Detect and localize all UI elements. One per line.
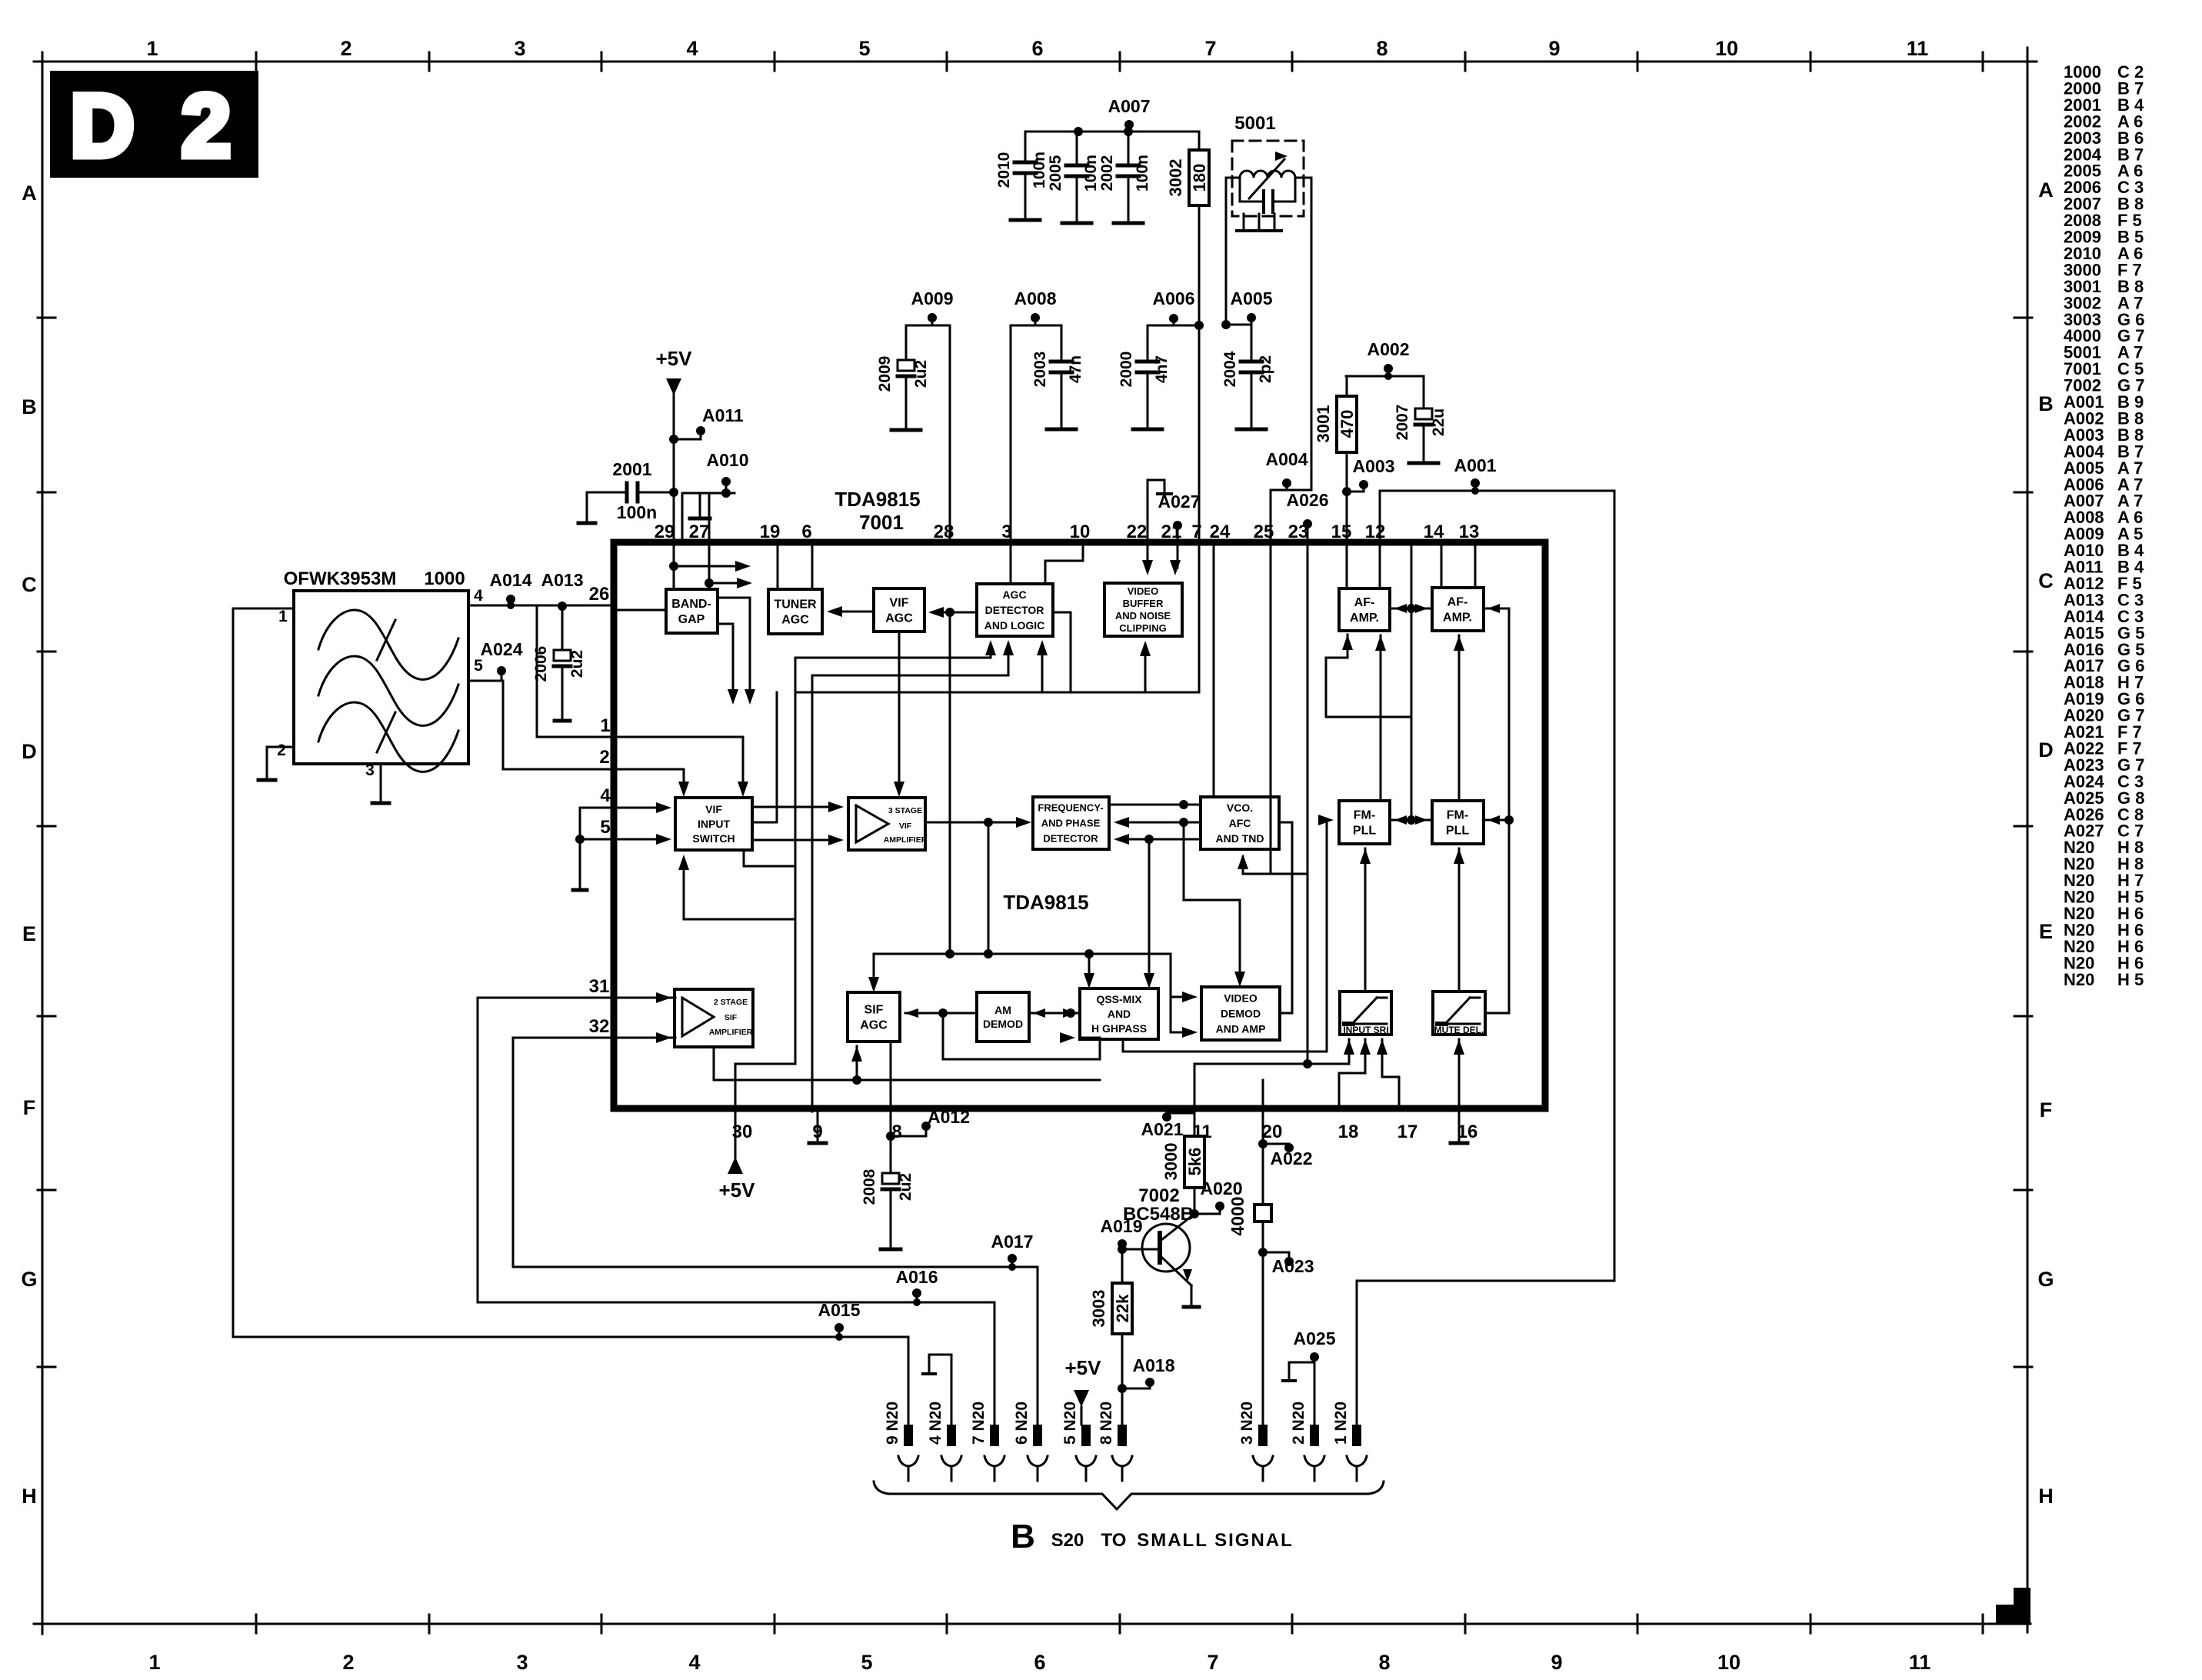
bottom ruler column numbers 1-11 bbox=[148, 1651, 1930, 1674]
wire pin 1 into vif switch bbox=[614, 737, 748, 797]
svg-text:32: 32 bbox=[589, 1016, 610, 1037]
tunable bandpass filter 5001 bbox=[1232, 113, 1304, 216]
svg-text:4: 4 bbox=[686, 37, 698, 60]
filter 5001 case ground stubs bbox=[1237, 214, 1281, 231]
wire am demod to qss mix bbox=[1029, 1008, 1080, 1018]
svg-text:DETECTOR: DETECTOR bbox=[985, 604, 1044, 616]
svg-text:AGC: AGC bbox=[885, 612, 913, 625]
block VCO AFC AND TND bbox=[1201, 797, 1279, 849]
wire af link vertical bbox=[1411, 542, 1413, 820]
component grid-reference list bbox=[2064, 62, 2144, 989]
IC left pin numbers bbox=[589, 584, 611, 1037]
wire pin 28 drop bbox=[949, 325, 951, 542]
connector pin 9 N20 bbox=[884, 1402, 918, 1481]
svg-text:QSS-MIX: QSS-MIX bbox=[1096, 993, 1142, 1005]
wire bus to video demod inputs bbox=[1171, 954, 1198, 1038]
svg-text:2002: 2002 bbox=[1098, 155, 1116, 192]
svg-text:6: 6 bbox=[801, 522, 811, 542]
svg-text:N20: N20 bbox=[2064, 970, 2094, 989]
wire pin 5 into vif switch bbox=[614, 834, 671, 845]
capacitor 2006 2u2 bbox=[532, 608, 586, 721]
svg-text:B: B bbox=[22, 395, 37, 418]
test point A001 bbox=[1454, 455, 1497, 491]
svg-text:AMPLIFIER: AMPLIFIER bbox=[709, 1028, 753, 1037]
svg-text:AGC: AGC bbox=[781, 614, 809, 627]
svg-text:A009: A009 bbox=[911, 288, 954, 308]
svg-text:31: 31 bbox=[589, 976, 610, 997]
svg-text:G: G bbox=[2037, 1268, 2054, 1291]
svg-text:3002: 3002 bbox=[1166, 159, 1185, 197]
svg-text:24: 24 bbox=[1210, 522, 1231, 542]
block FREQUENCY AND PHASE DETECTOR bbox=[1033, 797, 1109, 849]
svg-text:22u: 22u bbox=[1430, 408, 1447, 436]
svg-text:7 N20: 7 N20 bbox=[970, 1402, 988, 1445]
test point A017 bbox=[991, 1232, 1034, 1271]
wire vif switch out middle bbox=[752, 692, 777, 822]
svg-text:19: 19 bbox=[760, 522, 781, 542]
test point A027 bbox=[1158, 492, 1201, 542]
wire A019 to 3003 bbox=[1121, 1249, 1124, 1283]
svg-text:A012: A012 bbox=[928, 1107, 970, 1127]
wire pin 26 into band-gap bbox=[614, 609, 666, 612]
border frame top ruler line bbox=[34, 61, 2037, 63]
test point A009 bbox=[911, 288, 954, 325]
wire pin28 node to vif agc and agc det bbox=[928, 607, 977, 618]
ground transistor emitter bbox=[1184, 1305, 1199, 1309]
svg-text:5: 5 bbox=[600, 817, 610, 838]
wire A024 to IC pin 2 bbox=[503, 681, 614, 769]
svg-text:C: C bbox=[22, 573, 37, 596]
svg-text:100n: 100n bbox=[1031, 152, 1048, 188]
svg-text:A021: A021 bbox=[1141, 1119, 1184, 1139]
wire A008 node bbox=[1011, 325, 1061, 327]
wire fm-pll top to af-amp bbox=[1375, 635, 1386, 801]
svg-text:2u2: 2u2 bbox=[568, 650, 586, 678]
svg-text:27: 27 bbox=[689, 522, 710, 542]
label OFWK pin 4 bbox=[474, 587, 483, 605]
svg-text:INPUT SRI: INPUT SRI bbox=[1343, 1025, 1388, 1035]
svg-text:100n: 100n bbox=[1082, 155, 1100, 192]
wire bus into qss mix bbox=[1084, 954, 1094, 988]
wire agc det right output bbox=[1053, 612, 1071, 692]
wire A015 to connector 9 N20 bbox=[908, 1337, 910, 1425]
wire pin 25 to vco bottom bbox=[1238, 542, 1308, 874]
svg-text:VIF: VIF bbox=[890, 597, 909, 610]
wire band-gap output upper bbox=[718, 598, 755, 705]
resistor 3001 470 bbox=[1314, 376, 1357, 492]
IC top pin numbers bbox=[655, 522, 1480, 542]
svg-text:F: F bbox=[2040, 1098, 2053, 1122]
svg-text:OFWK3953M: OFWK3953M bbox=[284, 568, 397, 589]
power +5V symbol A011 rail bbox=[656, 347, 693, 395]
wire vif out to sif row bus bbox=[988, 822, 990, 954]
block VIDEO DEMOD AND AMP bbox=[1201, 987, 1280, 1040]
svg-text:1: 1 bbox=[146, 37, 158, 60]
svg-text:A004: A004 bbox=[1266, 449, 1308, 469]
connector pin 7 N20 bbox=[970, 1402, 1004, 1481]
svg-text:2 N20: 2 N20 bbox=[1290, 1402, 1308, 1445]
wire sif row bus bbox=[874, 949, 1171, 958]
svg-text:2010: 2010 bbox=[995, 152, 1013, 188]
svg-text:7002: 7002 bbox=[1138, 1185, 1179, 1206]
svg-text:8: 8 bbox=[1378, 1651, 1390, 1674]
svg-text:A005: A005 bbox=[1231, 288, 1273, 308]
test point A026 bbox=[1287, 490, 1329, 542]
resistor 3003 22k bbox=[1089, 1283, 1132, 1334]
svg-text:PLL: PLL bbox=[1353, 825, 1376, 838]
wire af2 right feed bbox=[1485, 604, 1509, 1013]
svg-text:3 N20: 3 N20 bbox=[1238, 1402, 1256, 1445]
wire A017 run bbox=[513, 1038, 1038, 1267]
sheet label D2 black box bbox=[50, 71, 258, 178]
wire vif amplifier output row bbox=[925, 817, 1031, 828]
test point A019 bbox=[1101, 1216, 1143, 1254]
svg-text:2007: 2007 bbox=[1394, 405, 1411, 441]
test point A011 bbox=[669, 405, 744, 444]
test point A018 bbox=[1122, 1355, 1175, 1388]
capacitor 2004 2p2 bbox=[1221, 325, 1274, 429]
wire 3002 to pin 7 bbox=[1194, 321, 1204, 542]
right border tick marks bbox=[2014, 318, 2032, 1367]
svg-text:A011: A011 bbox=[702, 405, 744, 425]
block VIF INPUT SWITCH bbox=[675, 798, 752, 850]
svg-text:3000: 3000 bbox=[1161, 1143, 1181, 1181]
svg-text:TDA9815: TDA9815 bbox=[1003, 891, 1088, 914]
capacitor 2009 2u2 bbox=[876, 325, 930, 430]
svg-text:AND TND: AND TND bbox=[1216, 832, 1264, 845]
block FM-PLL left bbox=[1339, 801, 1390, 844]
block VIDEO BUFFER AND NOISE CLIPPING bbox=[1104, 583, 1182, 636]
test point A024 bbox=[481, 639, 523, 681]
connector pin 8 N20 bbox=[1098, 1402, 1132, 1481]
svg-text:6 N20: 6 N20 bbox=[1013, 1402, 1031, 1445]
test point A003 bbox=[1342, 456, 1394, 496]
label TDA9815 center bbox=[1003, 891, 1088, 914]
svg-text:H: H bbox=[22, 1485, 37, 1508]
test point A021 bbox=[1141, 1112, 1194, 1139]
wire freq det row3 to qss mix bbox=[1144, 839, 1154, 988]
svg-text:10: 10 bbox=[1070, 522, 1091, 542]
wire af-amp link bbox=[1390, 604, 1432, 613]
block AM DEMOD bbox=[977, 992, 1029, 1042]
wire bus to af-amp bbox=[1326, 635, 1411, 717]
svg-text:6: 6 bbox=[1031, 37, 1043, 60]
wire video buffer bottom input bbox=[1140, 641, 1151, 692]
capacitor 2002 100n bbox=[1098, 132, 1151, 223]
svg-text:PLL: PLL bbox=[1446, 825, 1469, 838]
block 2 STAGE SIF AMPLIFIER bbox=[675, 989, 753, 1047]
wire pin 11 inside bbox=[1194, 1059, 1349, 1108]
svg-text:AMPLIFIER: AMPLIFIER bbox=[884, 835, 928, 845]
block AF-AMP right bbox=[1432, 588, 1484, 631]
wire top supply bus bbox=[1025, 127, 1199, 136]
wire pin 8 to 2008 bbox=[890, 1112, 892, 1173]
test point A013 bbox=[541, 570, 584, 611]
svg-text:12: 12 bbox=[1365, 522, 1386, 542]
resistor 3000 5k6 bbox=[1161, 1136, 1204, 1188]
test point A010 bbox=[707, 450, 749, 498]
ground OFWK pin 3 bbox=[372, 764, 389, 803]
capacitor 2003 47n bbox=[1031, 325, 1084, 429]
svg-text:100n: 100n bbox=[1134, 155, 1151, 192]
svg-text:470: 470 bbox=[1338, 410, 1357, 438]
wire agc det bottom input 2 bbox=[812, 640, 1014, 1112]
capacitor 2001 100n bbox=[587, 459, 678, 522]
svg-text:9 N20: 9 N20 bbox=[884, 1402, 901, 1445]
test point A012 bbox=[886, 1107, 970, 1141]
svg-text:A025: A025 bbox=[1294, 1328, 1336, 1348]
top ruler tick marks bbox=[256, 52, 1983, 71]
svg-text:2001: 2001 bbox=[612, 459, 651, 479]
wire pin 31 row bbox=[478, 992, 675, 1003]
svg-text:1: 1 bbox=[148, 1651, 160, 1674]
wire A017 to connector 6 N20 bbox=[1037, 1267, 1039, 1425]
svg-text:4: 4 bbox=[474, 587, 483, 605]
wire pin29 junction arrows bbox=[669, 542, 751, 589]
wire A001 node pin 12 row bbox=[1380, 487, 1614, 542]
svg-text:C: C bbox=[2038, 569, 2054, 592]
wire 4000 to connector 3 N20 bbox=[1258, 1222, 1268, 1425]
wire pin 3 into agc detector bbox=[1010, 542, 1012, 584]
svg-text:A017: A017 bbox=[991, 1232, 1034, 1252]
wire vco right to video demod right bbox=[1279, 822, 1292, 1013]
svg-text:5001: 5001 bbox=[1234, 113, 1275, 134]
block VIF AGC bbox=[874, 588, 924, 632]
ground at pin 9 bbox=[809, 1112, 826, 1143]
wire pin 28 inside drop bbox=[949, 612, 951, 954]
svg-text:16: 16 bbox=[1457, 1122, 1478, 1142]
wire pin 6 into tuner agc bbox=[811, 542, 814, 589]
wire 5001 right leg bbox=[1295, 178, 1311, 490]
capacitor 2010 100n bbox=[995, 132, 1048, 220]
svg-text:AF-: AF- bbox=[1354, 596, 1375, 609]
connector pin 4 N20 bbox=[927, 1402, 961, 1481]
svg-text:DEMOD: DEMOD bbox=[1221, 1007, 1261, 1019]
wire pin 24 into vco bbox=[1213, 542, 1215, 797]
svg-text:AFC: AFC bbox=[1229, 817, 1251, 829]
svg-text:A019: A019 bbox=[1101, 1216, 1143, 1236]
wire 5001 left leg bbox=[1226, 178, 1240, 325]
svg-text:4n7: 4n7 bbox=[1153, 355, 1171, 383]
bottom ruler tick marks bbox=[256, 1615, 1983, 1633]
svg-text:4: 4 bbox=[600, 785, 611, 806]
svg-text:3001: 3001 bbox=[1314, 405, 1333, 443]
svg-text:A: A bbox=[2038, 178, 2054, 202]
svg-text:E: E bbox=[2039, 920, 2053, 943]
wire pin 11 to 3000 bbox=[1194, 1108, 1196, 1136]
wire vif switch feedback loop bbox=[678, 658, 795, 1064]
svg-text:VIDEO: VIDEO bbox=[1224, 992, 1258, 1004]
ground for capacitor 2001 bbox=[578, 492, 595, 523]
svg-text:VCO.: VCO. bbox=[1227, 802, 1253, 814]
wire far-left vertical to A015 row bbox=[232, 608, 235, 1337]
wire pin 32 row bbox=[513, 1032, 675, 1043]
wire A016 to connector 7 N20 bbox=[994, 1302, 996, 1425]
svg-text:2006: 2006 bbox=[532, 646, 550, 682]
svg-text:AND LOGIC: AND LOGIC bbox=[984, 619, 1045, 632]
wire fm2 right feed bbox=[1484, 815, 1514, 825]
svg-text:D: D bbox=[2038, 738, 2054, 762]
svg-text:FM-: FM- bbox=[1354, 809, 1375, 822]
wire agc det bottom input 3 bbox=[1037, 640, 1048, 692]
wire pin 14 into af-amp2 bbox=[1441, 542, 1443, 588]
wire pin 15 drop bbox=[1346, 492, 1348, 542]
transistor Q 7002 BC548B symbol bbox=[1122, 1214, 1194, 1305]
wire A016 run bbox=[478, 998, 994, 1302]
wire pin1 branch bbox=[537, 605, 614, 737]
svg-text:INPUT: INPUT bbox=[698, 818, 730, 830]
test point A008 bbox=[1014, 288, 1057, 325]
wire pin 21 A027 into video buffer bbox=[1170, 542, 1181, 575]
ground OFWK pin 2 bbox=[258, 747, 294, 780]
svg-text:11: 11 bbox=[1909, 1651, 1931, 1674]
svg-text:S20: S20 bbox=[1051, 1530, 1084, 1551]
svg-text:2 STAGE: 2 STAGE bbox=[714, 998, 748, 1007]
wire agc det bottom input 1 bbox=[795, 640, 996, 658]
wire IC pins 4 and 5 tie bbox=[573, 808, 614, 890]
wire freq det row3 from vco bbox=[1114, 834, 1201, 845]
svg-text:DETECTOR: DETECTOR bbox=[1043, 833, 1098, 845]
svg-text:TO: TO bbox=[1101, 1530, 1127, 1551]
svg-text:1: 1 bbox=[600, 715, 610, 736]
test point A016 bbox=[896, 1267, 938, 1306]
label OFWK pin 5 bbox=[474, 657, 483, 675]
SAW filter 1000 OFWK3953M box with response curves bbox=[284, 568, 468, 772]
svg-text:B: B bbox=[1011, 1518, 1035, 1555]
power +5V at pin 30 bbox=[719, 1112, 756, 1202]
svg-text:D: D bbox=[70, 77, 134, 175]
label B S20 TO SMALL SIGNAL bbox=[1011, 1518, 1294, 1555]
wire vco out down to video demod bbox=[1184, 822, 1245, 987]
svg-text:1: 1 bbox=[278, 608, 288, 625]
stub terminal at A025 bbox=[1283, 1362, 1314, 1381]
wire pin 7 inside bbox=[1198, 542, 1201, 692]
svg-text:B: B bbox=[2038, 392, 2054, 415]
test point A025 bbox=[1294, 1328, 1336, 1425]
svg-text:5k6: 5k6 bbox=[1185, 1148, 1204, 1176]
block MUTE DEL bbox=[1433, 992, 1485, 1035]
svg-text:4000: 4000 bbox=[1228, 1196, 1248, 1235]
svg-text:2004: 2004 bbox=[1221, 351, 1239, 387]
svg-text:10: 10 bbox=[1717, 1651, 1741, 1674]
wire pin 12 into af-amp bbox=[1379, 542, 1381, 588]
svg-text:9: 9 bbox=[1551, 1651, 1562, 1674]
wire A005 node bbox=[1221, 320, 1251, 329]
label transistor 7002 BC548B bbox=[1123, 1185, 1194, 1225]
svg-text:A002: A002 bbox=[1368, 339, 1410, 359]
resistor 3002 180 bbox=[1166, 132, 1209, 325]
svg-text:SIF: SIF bbox=[864, 1004, 884, 1017]
connector pin 2 N20 bbox=[1290, 1402, 1324, 1481]
test point A020 bbox=[1194, 1178, 1242, 1214]
wire pin 23 inside drop bbox=[1307, 542, 1309, 1064]
svg-text:A010: A010 bbox=[707, 450, 749, 470]
ground at pin 16 bbox=[1451, 1112, 1467, 1143]
right border row letters A-H bbox=[2037, 178, 2054, 1508]
wire pin 13 into af-amp2 bbox=[1474, 542, 1477, 588]
wire OFWK pin5 to A024 bbox=[468, 680, 503, 682]
svg-text:7001: 7001 bbox=[859, 511, 904, 534]
svg-text:22k: 22k bbox=[1113, 1294, 1132, 1322]
test point A002 bbox=[1368, 339, 1410, 376]
svg-text:AND NOISE: AND NOISE bbox=[1115, 610, 1171, 622]
svg-text:1 N20: 1 N20 bbox=[1332, 1402, 1350, 1445]
svg-text:8 N20: 8 N20 bbox=[1098, 1402, 1115, 1445]
wire pin 8 inside bbox=[890, 1042, 892, 1112]
svg-text:15: 15 bbox=[1331, 522, 1352, 542]
svg-text:47n: 47n bbox=[1067, 355, 1084, 383]
wire +5V rail to pin 29 bbox=[673, 394, 675, 542]
svg-text:2000: 2000 bbox=[1118, 352, 1135, 388]
capacitor 2007 22u bbox=[1394, 376, 1447, 463]
svg-text:3 STAGE: 3 STAGE bbox=[888, 806, 922, 815]
wire pin 10 into agc detector bbox=[1045, 542, 1083, 584]
block QSS-MIX AND HIGHPASS bbox=[1080, 988, 1158, 1039]
wire pin 30 inside bbox=[735, 1064, 795, 1112]
test point A005 bbox=[1231, 288, 1273, 325]
svg-text:13: 13 bbox=[1459, 522, 1480, 542]
block 3 STAGE VIF AMPLIFIER bbox=[848, 798, 928, 850]
svg-text:4 N20: 4 N20 bbox=[927, 1402, 944, 1445]
wire band-gap output lower bbox=[718, 624, 738, 705]
svg-text:2008: 2008 bbox=[861, 1168, 878, 1205]
svg-text:VIF: VIF bbox=[705, 803, 722, 815]
wire pin27 to A010 ground bbox=[682, 493, 735, 542]
svg-text:5 N20: 5 N20 bbox=[1061, 1402, 1079, 1445]
wire sif agc bottom input bbox=[851, 1046, 862, 1085]
wire internal bus row C bbox=[795, 692, 1199, 694]
wire A001 long run to connector 1 N20 bbox=[1357, 491, 1614, 1425]
wire A004 node pin25 to 5001 bbox=[1271, 490, 1311, 542]
svg-text:2005: 2005 bbox=[1047, 155, 1064, 191]
capacitor 2008 2u2 bbox=[861, 1136, 914, 1249]
svg-text:A: A bbox=[22, 182, 37, 205]
svg-text:AMP.: AMP. bbox=[1443, 612, 1472, 625]
svg-text:AGC: AGC bbox=[860, 1019, 888, 1032]
wire fm-pll link bbox=[1390, 815, 1432, 825]
svg-text:5: 5 bbox=[858, 37, 870, 60]
svg-text:18: 18 bbox=[1338, 1122, 1359, 1142]
label OFWK pin 1 bbox=[278, 608, 288, 625]
svg-text:TUNER: TUNER bbox=[774, 598, 817, 612]
svg-text:FREQUENCY-: FREQUENCY- bbox=[1038, 802, 1103, 814]
svg-text:H 5: H 5 bbox=[2117, 970, 2144, 989]
svg-text:2p2: 2p2 bbox=[1257, 355, 1274, 383]
wire vif agc down to vif amplifier bbox=[894, 632, 904, 797]
block FM-PLL right bbox=[1432, 801, 1484, 844]
wire vif switch out lower bbox=[752, 835, 844, 845]
svg-text:10: 10 bbox=[1715, 37, 1738, 60]
svg-text:+5V: +5V bbox=[719, 1178, 756, 1202]
svg-text:2: 2 bbox=[340, 37, 351, 60]
test point A007 bbox=[1108, 96, 1151, 132]
svg-text:SWITCH: SWITCH bbox=[692, 832, 735, 845]
label OFWK pin 2 bbox=[277, 742, 286, 759]
wire pin 3 drop bbox=[1010, 325, 1012, 542]
stub terminal above pin 22 bbox=[1148, 480, 1171, 542]
svg-text:2: 2 bbox=[182, 77, 231, 175]
svg-text:BAND-: BAND- bbox=[671, 598, 711, 611]
left border row letters A-H bbox=[21, 182, 37, 1508]
svg-text:G: G bbox=[21, 1268, 37, 1291]
wire freq det row1 to vco bbox=[1109, 800, 1201, 809]
test point A023 bbox=[1263, 1252, 1314, 1276]
wire sif agc loop bbox=[943, 1013, 1100, 1059]
svg-text:9: 9 bbox=[1548, 37, 1560, 60]
wire OFWK pin1 feed bbox=[233, 608, 294, 610]
wire A009 node bbox=[906, 325, 950, 327]
wire input sri top to fm-pll bbox=[1360, 848, 1371, 992]
